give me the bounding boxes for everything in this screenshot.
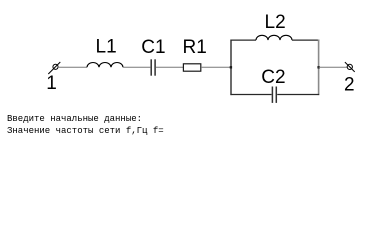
svg-text:C2: C2 bbox=[261, 67, 285, 88]
wire right vertical of parallel block bbox=[318, 40, 320, 96]
svg-text:Значение частоты сети f,Гц f=: Значение частоты сети f,Гц f= bbox=[7, 126, 164, 136]
wire bbox=[156, 66, 183, 68]
terminal 1 bbox=[48, 62, 60, 74]
svg-text:L1: L1 bbox=[96, 37, 117, 58]
node junction right bbox=[317, 66, 319, 68]
wire left vertical of parallel block bbox=[230, 40, 232, 96]
svg-text:2: 2 bbox=[344, 75, 355, 96]
inductor L1 bbox=[87, 63, 123, 68]
resistor R1 bbox=[183, 64, 200, 71]
wire bbox=[201, 66, 231, 68]
node junction left bbox=[230, 66, 232, 68]
wire bottom branch right bbox=[277, 94, 319, 96]
svg-text:C1: C1 bbox=[141, 37, 165, 58]
svg-text:L2: L2 bbox=[265, 12, 286, 33]
wire bbox=[123, 66, 150, 68]
wire bbox=[319, 66, 347, 68]
wire top branch left bbox=[230, 39, 256, 41]
capacitor C1 bbox=[151, 59, 155, 75]
svg-text:1: 1 bbox=[46, 73, 57, 94]
wire top branch right bbox=[292, 39, 319, 41]
terminal 2 bbox=[345, 62, 355, 72]
wire bbox=[58, 66, 87, 68]
svg-text:Введите начальные данные:: Введите начальные данные: bbox=[7, 114, 142, 124]
capacitor C2 bbox=[272, 87, 276, 103]
inductor L2 bbox=[256, 35, 292, 40]
wire bottom branch left bbox=[230, 94, 271, 96]
svg-text:R1: R1 bbox=[183, 37, 207, 58]
